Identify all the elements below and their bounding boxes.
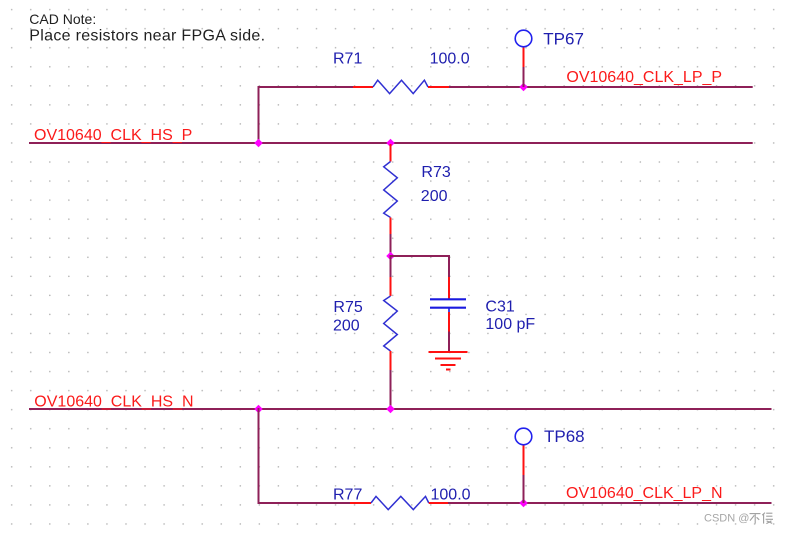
- resistor R73: [384, 144, 398, 235]
- junction R73 top on HS_P: [386, 139, 394, 147]
- testpoint TP68 circle: [515, 428, 532, 445]
- svg-text:OV10640_CLK_HS_P: OV10640_CLK_HS_P: [34, 127, 192, 144]
- svg-text:OV10640_CLK_LP_N: OV10640_CLK_LP_N: [566, 485, 723, 502]
- wire R73 bottom to mid junction: [390, 234, 392, 257]
- svg-text:200: 200: [421, 188, 448, 205]
- wire net OV10640_CLK_HS_N horizontal: [29, 408, 772, 410]
- wire TP68 stem lower part: [523, 474, 525, 503]
- junction HS_N at x=258.5: [254, 405, 262, 413]
- ground symbol: [429, 352, 468, 370]
- resistor R71: [353, 80, 449, 93]
- svg-text:TP67: TP67: [543, 29, 584, 48]
- svg-text:CSDN @: CSDN @: [704, 513, 749, 525]
- junction LP_N / TP68 stem: [519, 499, 527, 507]
- testpoint TP68 pin: [523, 445, 525, 475]
- svg-text:100.0: 100.0: [430, 51, 470, 68]
- wire from R77 right pin to LP_N end: [448, 502, 772, 504]
- svg-text:C31: C31: [485, 299, 514, 316]
- wire mid node down to R75: [390, 256, 392, 278]
- testpoint TP67 pin: [523, 47, 525, 67]
- svg-text:200: 200: [333, 318, 360, 335]
- wire TP67 stem lower part: [523, 66, 525, 87]
- wire net OV10640_CLK_HS_P horizontal: [29, 142, 753, 144]
- wire horizontal to R77 left pin: [258, 502, 352, 504]
- resistor R75: [384, 277, 398, 371]
- junction mid node: [386, 252, 394, 260]
- svg-text:OV10640_CLK_LP_P: OV10640_CLK_LP_P: [566, 69, 722, 86]
- junction HS_N / R75 bottom: [386, 405, 394, 413]
- svg-text:R75: R75: [333, 299, 362, 316]
- wire from R71 right pin to LP_P end: [448, 86, 753, 88]
- svg-text:R77: R77: [333, 487, 362, 504]
- wire horizontal to R71 left pin: [258, 86, 355, 88]
- junction on HS_P at x=258.5: [254, 139, 262, 147]
- wire C31 to ground: [448, 332, 450, 353]
- testpoint TP67 circle: [515, 30, 532, 47]
- wire mid node to C31 branch corner: [390, 255, 450, 257]
- watermark: [704, 513, 773, 525]
- svg-text:CAD Note:: CAD Note:: [29, 11, 96, 27]
- svg-text:TP68: TP68: [544, 427, 585, 446]
- svg-text:R71: R71: [333, 51, 362, 68]
- junction LP_P / TP67 stem: [519, 83, 527, 91]
- svg-text:OV10640_CLK_HS_N: OV10640_CLK_HS_N: [34, 394, 193, 411]
- svg-text:R73: R73: [421, 164, 450, 181]
- capacitor C31: [430, 277, 466, 333]
- svg-text:100.0: 100.0: [431, 487, 471, 504]
- wire R75 bottom to HS_N: [390, 370, 392, 410]
- wire vertical branch HS_N down to LP_N row: [258, 408, 260, 504]
- resistor R77: [350, 496, 449, 509]
- svg-text:100 pF: 100 pF: [485, 316, 535, 333]
- CAD note text: [29, 11, 265, 44]
- wire vertical branch from HS_P up to R71 row: [258, 86, 260, 144]
- wire C31 branch corner down: [448, 255, 450, 278]
- svg-text:Place resistors near FPGA side: Place resistors near FPGA side.: [29, 28, 265, 45]
